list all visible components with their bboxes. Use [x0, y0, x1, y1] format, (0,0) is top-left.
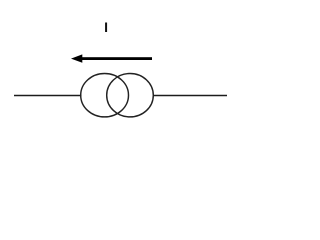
wire left lead: [14, 95, 82, 97]
current direction arrow (pointing left): [71, 54, 152, 62]
current source (IEC two overlapping circles): [81, 74, 154, 117]
wire right lead: [153, 95, 227, 97]
svg-text:I: I: [104, 19, 108, 35]
